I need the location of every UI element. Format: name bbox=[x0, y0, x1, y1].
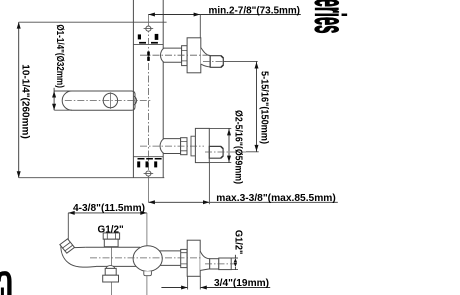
valve U2 body tab bbox=[191, 136, 195, 156]
trumpet to wall pipe bbox=[200, 251, 210, 270]
fixture vertical centerline bbox=[146, 213, 148, 295]
valve U1 shaft centerline bbox=[140, 54, 211, 56]
pipe centerline bbox=[205, 263, 237, 265]
svg-text:Ø2-5/16"(Ø59mm): Ø2-5/16"(Ø59mm) bbox=[233, 110, 244, 184]
dimension dia.32 for handle bbox=[53, 88, 55, 110]
valve U1 flange nut bbox=[182, 46, 188, 66]
valve U2 knob bbox=[209, 146, 223, 158]
dimension min.2-7/8 bbox=[148, 14, 300, 16]
svg-text:4-3/8"(11.5mm): 4-3/8"(11.5mm) bbox=[73, 203, 145, 214]
dimension 3/4 (19mm) bbox=[161, 287, 270, 289]
svg-text:10-1/4"(260mm): 10-1/4"(260mm) bbox=[19, 64, 30, 139]
dimension max.3-3/8 bbox=[148, 201, 337, 203]
G1/2 right leader arrows bbox=[231, 258, 238, 270]
wall pipe mid bbox=[210, 259, 219, 269]
svg-text:Ø1-1/4"(Ø32mm): Ø1-1/4"(Ø32mm) bbox=[54, 24, 65, 88]
valve U2 flange nut bbox=[181, 138, 187, 155]
sphere bottom tab bbox=[144, 271, 152, 276]
handle lever (stadium) bbox=[62, 91, 135, 110]
valve U1 handle base trumpet bbox=[201, 48, 210, 67]
dimension 10-1/4 vertical bbox=[18, 22, 20, 178]
handle boss arc bbox=[134, 96, 137, 105]
svg-text:Series: Series bbox=[306, 0, 354, 34]
spout aerator tip bbox=[60, 239, 75, 253]
bottom plate top edge bbox=[133, 156, 163, 158]
logo glyph fragment bottom-left bbox=[0, 273, 9, 295]
dimension 4-3/8 bbox=[68, 212, 147, 214]
dimension dia.59 bbox=[209, 128, 231, 162]
spout curved neck bbox=[61, 247, 96, 268]
bottom check-valve fitting bbox=[106, 266, 115, 269]
top mounting screw bbox=[146, 26, 151, 31]
svg-text:min.2-7/8"(73.5mm): min.2-7/8"(73.5mm) bbox=[209, 6, 301, 17]
wall centerline vertical bbox=[147, 26, 149, 178]
body tube right section bbox=[156, 251, 181, 266]
svg-text:5-15/16"(150mm): 5-15/16"(150mm) bbox=[259, 71, 270, 144]
left fitting vertical centerline bbox=[110, 233, 112, 295]
temperature indicator marks bbox=[137, 34, 161, 168]
center sphere body bbox=[133, 246, 162, 272]
valve U2 shaft (bottom) bbox=[160, 139, 181, 154]
valve U2 escutcheon disc bbox=[195, 128, 209, 162]
right hex nut bbox=[181, 249, 187, 267]
plate bottom edge / extension line bbox=[19, 177, 165, 179]
svg-text:G1/2": G1/2" bbox=[233, 230, 245, 255]
valve U2 shaft centerline bbox=[140, 145, 204, 147]
handle centerline bbox=[65, 100, 152, 102]
spout tip extension line bbox=[67, 213, 69, 242]
svg-text:max.3-3/8"(max.85.5mm): max.3-3/8"(max.85.5mm) bbox=[216, 193, 335, 204]
top plate bottom edge bbox=[133, 44, 163, 46]
svg-text:G1/2": G1/2" bbox=[98, 223, 124, 235]
valve U2 knob centerline bbox=[205, 151, 246, 153]
tube centerline bbox=[90, 257, 202, 259]
bottom mounting screw bbox=[146, 171, 151, 176]
plate top edge / extension line bbox=[19, 21, 167, 23]
handle screw bbox=[103, 93, 117, 107]
wall pipe threaded end G1/2 bbox=[219, 258, 231, 270]
handle extension ticks bbox=[54, 91, 72, 110]
defs bbox=[0, 0, 354, 295]
wall escutcheon flange bbox=[187, 240, 200, 276]
body tube left section bbox=[86, 247, 140, 266]
spout top fitting G1/2 bbox=[103, 233, 119, 239]
valve U1 escutcheon disc bbox=[187, 38, 201, 73]
dimension 150mm vertical bbox=[223, 60, 257, 62]
svg-text:3/4"(19mm): 3/4"(19mm) bbox=[214, 278, 269, 289]
valve U1 knob bbox=[210, 56, 223, 68]
wall plate column bbox=[133, 0, 163, 178]
valve U1 shaft (top) bbox=[161, 48, 182, 62]
valve U1 knob centerline bbox=[203, 60, 227, 62]
